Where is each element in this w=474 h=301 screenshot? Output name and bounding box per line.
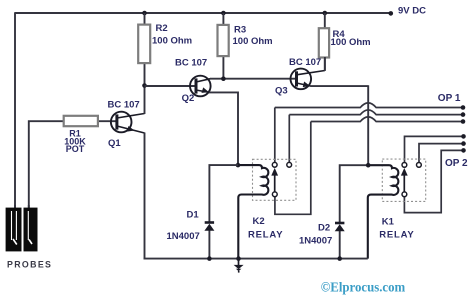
node junction dot R3 top [221,11,226,16]
node OP1 dot 1 [461,105,466,110]
wire OP2 line 2 [419,144,464,163]
wire Q1 collector to node A [144,86,146,115]
svg-text:1N4007: 1N4007 [299,236,332,247]
relay K1 common pin [402,192,407,197]
svg-text:PROBES: PROBES [7,260,52,270]
node 9V DC terminal dot [389,11,394,16]
node junction dot R4 top [323,11,328,16]
probe 2 [24,205,38,251]
relay K2 dashed box [253,159,297,200]
label K1 RELAY [379,217,414,241]
svg-text:Q2: Q2 [182,93,195,104]
node A junction dot base Q2 [142,83,147,88]
probe 1 [6,205,22,251]
wire Q2 emitter to relay K2 [209,92,238,165]
svg-text:RELAY: RELAY [248,230,283,241]
relay K2 contact pin 2 [287,162,292,167]
svg-text:100 Ohm: 100 Ohm [152,36,192,47]
relay K1 contact pin 2 [417,163,422,168]
svg-text:100 Ohm: 100 Ohm [233,36,273,47]
node junction dot Q3 emitter relay K1 [366,163,371,168]
svg-text:BC 107: BC 107 [108,99,140,110]
wire node A to Q2 base [145,85,197,87]
svg-text:BC 107: BC 107 [175,57,207,68]
wire OP1 line 2 with hop [289,110,463,163]
wire K2 common return to OP1 line 3 [275,122,311,215]
wire left vertical to probe 1 [14,12,16,208]
wire Q3 emitter down to relay K1 node [311,85,369,165]
wire Q2 collector to Q3 base [210,78,297,80]
ground symbol [234,259,244,273]
relay K2 armature arrow [271,168,278,192]
wire Q3 collector to R4 [324,57,326,71]
svg-text:BC 107: BC 107 [289,57,321,68]
wire OP2 line 3 common return [404,150,463,212]
svg-text:POT: POT [66,144,85,154]
resistor R2 [138,13,150,86]
svg-text:D2: D2 [318,222,330,233]
svg-text:K2: K2 [253,216,265,227]
label BC 107 Q1 [108,99,140,149]
node junction dot Q2 emitter relay K2 [236,163,241,168]
label D2 1N4007 [299,222,332,246]
svg-text:©Elprocus.com: ©Elprocus.com [321,280,406,295]
node OP2 dot 1 [461,134,466,139]
relay K2 coil [238,165,268,259]
label BC 107 Q3 [275,57,321,97]
label R2 value [152,23,192,46]
wire K1 node branch [340,165,369,222]
wire OP1 line 3 with hop [311,117,463,122]
node junction dot R3 bottom [221,76,226,81]
node OP2 dot 2 [461,141,466,146]
node OP1 dot 2 [461,112,466,117]
node junction dot D1 ground [207,256,212,261]
resistor R3 [218,13,229,79]
svg-text:RELAY: RELAY [379,230,414,241]
resistor R1 pot [64,116,117,126]
label D1 1N4007 [167,210,200,242]
svg-text:OP 2: OP 2 [445,158,468,169]
transistor Q3 [291,69,325,90]
label K2 RELAY [248,216,283,241]
node junction dot K2 coil ground [236,256,241,261]
wire ground rail [144,258,368,260]
label R4 value [331,29,371,48]
node junction dot R2 top [142,11,147,16]
transistor Q2 [190,76,211,97]
wire OP1 line 1 with hop [275,103,463,163]
wire OP2 line 1 [405,136,464,162]
wire top supply rail [15,12,391,14]
svg-text:Q1: Q1 [108,138,121,149]
relay K2 common pin [272,192,277,197]
transistor Q1 [111,112,145,134]
svg-text:1N4007: 1N4007 [167,231,200,242]
label BC 107 Q2 [175,57,207,104]
relay K1 armature arrow [401,168,408,192]
node OP2 dot 3 [461,148,466,153]
diode D1 [204,165,238,259]
diode D2 [335,223,345,260]
relay K2 contact pin 1 [272,162,277,167]
svg-text:K1: K1 [382,217,395,228]
svg-text:Q3: Q3 [275,85,288,96]
svg-text:R2: R2 [156,23,168,34]
svg-text:D1: D1 [187,210,200,221]
node OP1 dot 3 [461,119,466,124]
relay K1 coil [368,165,399,258]
svg-text:R3: R3 [234,24,246,35]
node junction dot D2 ground [337,256,342,261]
resistor R4 [319,13,329,71]
wire probe 2 to R1 [29,121,64,208]
svg-text:9V DC: 9V DC [398,5,426,16]
relay K1 dashed box [382,159,425,201]
svg-text:OP 1: OP 1 [438,93,461,104]
wire Q1 emitter down to ground rail [144,133,146,260]
label R1 100K POT [64,129,86,155]
relay K1 contact pin 1 [402,163,407,168]
label R3 value [233,24,273,47]
svg-text:100 Ohm: 100 Ohm [331,37,371,48]
